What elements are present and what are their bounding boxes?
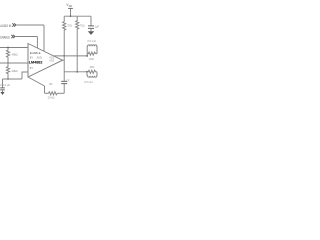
- svg-text:VO2: VO2: [49, 59, 54, 62]
- pin label VO1: [49, 56, 54, 59]
- svg-text:AUDIO IN: AUDIO IN: [0, 24, 11, 28]
- resistor R2 (bias divider lower): [6, 63, 9, 79]
- wire bypass pin stub: [22, 72, 28, 79]
- node AUDIO IN label: [0, 24, 11, 28]
- wire enable horizontal: [15, 36, 37, 38]
- svg-text:0.5 mH: 0.5 mH: [84, 80, 92, 84]
- svg-text:1µF: 1µF: [95, 24, 100, 28]
- svg-text:40kΩ: 40kΩ: [12, 69, 18, 73]
- wire filter lower left node: [86, 72, 88, 76]
- wire filter lower right node: [96, 72, 98, 76]
- label RF value below: [48, 96, 55, 100]
- node junction dot VO1/filter: [86, 55, 88, 57]
- resistor RF (feedback): [49, 92, 59, 95]
- svg-text:BY: BY: [30, 67, 34, 70]
- svg-text:40kΩ: 40kΩ: [12, 52, 18, 56]
- resistor R3 (rail pull-up left): [63, 16, 66, 32]
- node junction dot R4/VO2: [76, 71, 78, 73]
- wire audio-in vertical drop: [43, 25, 45, 51]
- pin label IN (inside amp lower): [30, 67, 34, 70]
- wire supply rail: [64, 15, 91, 17]
- resistor R6 (filter damp lower): [87, 70, 97, 73]
- svg-text:DD: DD: [69, 6, 73, 8]
- capacitor CB lead: [2, 79, 4, 88]
- power VDD bar: [68, 7, 73, 9]
- svg-text:75Ω: 75Ω: [80, 23, 85, 27]
- wire bias top pin: [0, 47, 28, 49]
- wire CS to ground: [90, 29, 92, 32]
- label CF value: [66, 80, 70, 83]
- capacitor CF lead upper / wire to VO2 node: [63, 72, 65, 81]
- wire VO2 drop: [63, 56, 65, 72]
- wire VO1 output line: [54, 55, 87, 57]
- ground (bypass cap): [2, 90, 4, 92]
- svg-text:75Ω: 75Ω: [67, 23, 72, 27]
- wire feedback bottom right: [59, 92, 65, 94]
- wire bypass bottom rail: [3, 78, 23, 80]
- label LM4882 part number: [29, 61, 43, 65]
- op-amp U1 LM4882 triangle: [28, 44, 63, 78]
- capacitor CB plates: [0, 88, 5, 90]
- pin label BYPASS (inside amp row): [30, 56, 42, 59]
- resistor R5 (filter damp upper): [87, 52, 97, 55]
- svg-text:20 kΩ: 20 kΩ: [48, 96, 55, 100]
- svg-text:AUD: AUD: [37, 56, 42, 59]
- node junction dot bias mid: [7, 62, 9, 64]
- pin label VO2: [49, 59, 54, 62]
- svg-text:32Ω: 32Ω: [90, 65, 95, 69]
- svg-text:RF: RF: [49, 83, 53, 86]
- wire VO2 tip stub: [63, 59, 65, 61]
- capacitor CF plates: [61, 81, 67, 83]
- label CB value 1.0uF: [0, 83, 10, 87]
- node ENABLE label: [0, 36, 10, 40]
- label R1 value: [12, 52, 18, 56]
- svg-text:C 1.0 µF: C 1.0 µF: [0, 83, 10, 87]
- wire enable vertical drop to amp top edge: [36, 37, 38, 49]
- svg-text:CF: CF: [66, 80, 70, 83]
- ground (supply cap): [88, 31, 94, 35]
- label L1 value 0.5 mH: [87, 39, 95, 43]
- inductor L1: [87, 45, 97, 56]
- node junction dot VDD rail: [70, 15, 72, 17]
- label RF above: [49, 83, 53, 86]
- capacitor CS plates: [88, 26, 94, 29]
- label R3 value: [67, 23, 72, 27]
- connector J2 (enable chevron): [11, 35, 15, 38]
- wire feedback diagonal from amp: [28, 77, 45, 86]
- wire R3 to VO1 line: [63, 32, 65, 56]
- label R4 value: [80, 23, 85, 27]
- svg-text:ENABLE: ENABLE: [30, 51, 41, 55]
- node junction dot bias bottom: [7, 78, 9, 80]
- wire audio-in horizontal: [16, 24, 44, 26]
- capacitor CS lead from rail: [90, 16, 92, 25]
- svg-text:32Ω: 32Ω: [89, 57, 94, 61]
- svg-text:BY: BY: [30, 56, 34, 59]
- resistor R1 (bias divider upper): [6, 48, 9, 64]
- wire bias mid tap: [0, 62, 28, 64]
- label L2 value 0.5 mH: [84, 80, 92, 84]
- node junction dot bias top: [7, 47, 9, 49]
- svg-text:0.5 mH: 0.5 mH: [87, 39, 95, 43]
- wire feedback left drop: [44, 86, 46, 93]
- label R6 value: [90, 65, 95, 69]
- connector J1 (audio in chevron): [12, 23, 16, 26]
- resistor R4 (rail pull-up right): [76, 16, 79, 31]
- wire feedback bottom left: [45, 92, 49, 94]
- wire VO2 output line: [64, 71, 87, 73]
- svg-text:ENABLE: ENABLE: [0, 36, 10, 40]
- inductor L2: [87, 76, 97, 77]
- node junction dot VO2/filter: [86, 71, 88, 73]
- power VDD label: [66, 3, 72, 8]
- label ENABLE (inside amp): [30, 51, 41, 55]
- label R5 value: [89, 57, 94, 61]
- wire R4 down to VO2 line: [76, 31, 78, 72]
- label CS value: [95, 24, 100, 28]
- label R2 value: [12, 69, 18, 73]
- capacitor CF lead lower: [63, 84, 65, 93]
- svg-text:LM4882: LM4882: [29, 61, 43, 65]
- node junction dot R3/VO1: [63, 55, 65, 57]
- wire VDD feed: [70, 8, 72, 16]
